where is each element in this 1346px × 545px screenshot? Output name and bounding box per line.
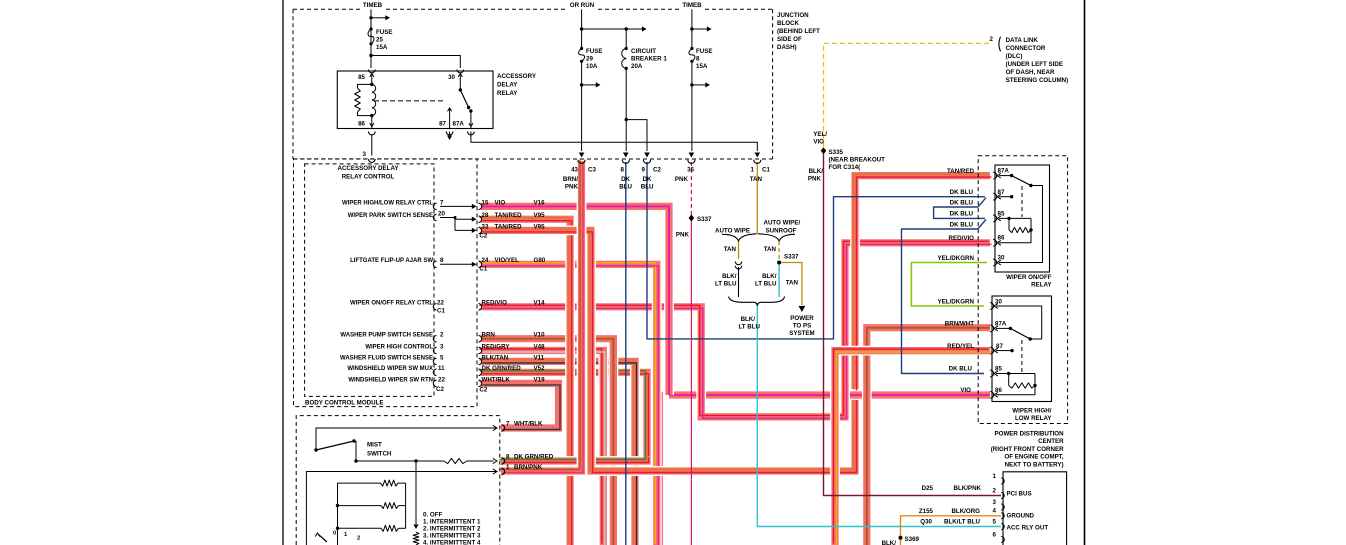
high/low relay 30 pin bbox=[990, 303, 993, 310]
svg-text:TAN/RED: TAN/RED bbox=[947, 168, 975, 175]
autowipe brace left bbox=[722, 234, 757, 241]
svg-text:1. INTERMITTENT 1: 1. INTERMITTENT 1 bbox=[423, 519, 481, 526]
relay terminal 85 connector bbox=[368, 70, 375, 73]
svg-text:WIPER ON/OFF: WIPER ON/OFF bbox=[1006, 274, 1052, 281]
wire V95 TAN/RED from BCM pin 28 down off page bbox=[481, 219, 570, 545]
svg-text:V95: V95 bbox=[534, 212, 546, 219]
svg-text:15A: 15A bbox=[376, 44, 388, 51]
svg-text:V95: V95 bbox=[534, 223, 546, 230]
delay resistor ladder rail right bbox=[405, 483, 407, 528]
wire DK BLU loop relay 87 to relay 85 bbox=[934, 198, 986, 219]
page border left bbox=[282, 0, 284, 545]
wire V95 TAN/RED from BCM pin 33 to park-sense bus bbox=[481, 230, 851, 471]
on/off relay 87A pin bbox=[993, 172, 996, 179]
svg-text:VIO: VIO bbox=[960, 387, 971, 394]
svg-text:LIFTGATE FLIP-UP AJAR SW: LIFTGATE FLIP-UP AJAR SW bbox=[350, 258, 433, 264]
svg-text:V14: V14 bbox=[534, 300, 546, 307]
svg-text:BRN: BRN bbox=[482, 332, 496, 339]
svg-text:LOW RELAY: LOW RELAY bbox=[1015, 415, 1052, 422]
wiper switch pin 7 connector bbox=[502, 425, 505, 431]
relay terminal 30 connector bbox=[457, 70, 464, 73]
svg-text:SYSTEM: SYSTEM bbox=[789, 330, 814, 337]
wire V11 BLK/TAN from BCM pin 5 down off page bbox=[481, 361, 635, 545]
svg-text:WHT/BLK: WHT/BLK bbox=[514, 420, 543, 427]
svg-text:SIDE OF: SIDE OF bbox=[777, 36, 802, 43]
svg-text:TAN: TAN bbox=[750, 176, 763, 183]
svg-text:DK: DK bbox=[621, 176, 630, 183]
svg-text:TAN: TAN bbox=[764, 246, 777, 253]
svg-text:DK: DK bbox=[643, 176, 652, 183]
svg-text:SUNROOF: SUNROOF bbox=[766, 228, 797, 235]
svg-text:JUNCTION: JUNCTION bbox=[777, 12, 809, 19]
svg-text:OF ENGINE COMPT,: OF ENGINE COMPT, bbox=[1004, 454, 1063, 461]
autowipe inline connector bbox=[735, 262, 741, 265]
svg-text:4. INTERMITTENT 4: 4. INTERMITTENT 4 bbox=[423, 540, 481, 545]
junction block dashed box bbox=[293, 9, 773, 159]
svg-text:BLK/ORG: BLK/ORG bbox=[951, 508, 980, 515]
wire VIO segment to wiper high/low relay 86 bbox=[669, 390, 990, 400]
svg-text:86: 86 bbox=[358, 121, 365, 128]
svg-text:PCI BUS: PCI BUS bbox=[1007, 491, 1032, 498]
high/low relay coil bbox=[996, 373, 1009, 375]
wire V19 WHT/BLK from BCM pin 22 to wiper switch pin 7 bbox=[481, 383, 559, 428]
DLC bracket bbox=[999, 37, 1001, 52]
svg-text:VIO: VIO bbox=[495, 199, 506, 206]
svg-text:87: 87 bbox=[998, 189, 1005, 196]
svg-text:0: 0 bbox=[333, 531, 336, 537]
svg-text:3: 3 bbox=[363, 151, 367, 158]
splice S337 diamond bbox=[689, 215, 695, 222]
svg-text:WASHER PUMP SWITCH SENSE: WASHER PUMP SWITCH SENSE bbox=[340, 333, 433, 339]
svg-text:ACCESSORY: ACCESSORY bbox=[497, 73, 537, 80]
high/low relay 87A pin bbox=[990, 325, 993, 332]
svg-text:AUTO WIPE: AUTO WIPE bbox=[715, 228, 750, 235]
svg-text:BLK/PNK: BLK/PNK bbox=[954, 485, 982, 492]
svg-text:15: 15 bbox=[482, 199, 489, 206]
wire BLK/LT BLU from brace to PDC pin 5 ACC RLY OUT bbox=[757, 303, 1001, 527]
on/off relay internals bbox=[999, 175, 1012, 177]
svg-text:GROUND: GROUND bbox=[1007, 513, 1035, 520]
BCM pin 11 connector bbox=[433, 369, 436, 375]
BCM pin 8 connector and arrow bbox=[433, 261, 436, 267]
svg-text:TAN/RED: TAN/RED bbox=[495, 223, 523, 230]
svg-text:30: 30 bbox=[998, 255, 1005, 262]
svg-text:6: 6 bbox=[993, 531, 997, 538]
svg-text:DK BLU: DK BLU bbox=[950, 211, 974, 218]
wire YEL/DKGRN from on/off relay 30 to high/low relay 30 bbox=[911, 263, 987, 307]
delay resistor ladder rail left bbox=[337, 483, 339, 545]
svg-text:DK BLU: DK BLU bbox=[950, 200, 974, 207]
wire V16 VIO from BCM pin 15 down to relay feed row bbox=[481, 206, 669, 395]
svg-text:4: 4 bbox=[993, 508, 997, 515]
intermittent wiper rheostat bbox=[415, 461, 417, 524]
relay dashed actuator link bbox=[374, 100, 444, 102]
svg-text:V11: V11 bbox=[534, 354, 545, 361]
svg-text:85: 85 bbox=[358, 74, 365, 81]
circuit breaker 1 bbox=[625, 29, 627, 49]
svg-text:RELAY: RELAY bbox=[497, 90, 518, 97]
svg-text:DK BLU: DK BLU bbox=[949, 366, 973, 373]
BCM pin 22 C1 connector bbox=[433, 304, 436, 310]
body control module dashed box bbox=[294, 159, 478, 407]
splice S369 dot bbox=[899, 536, 903, 540]
wire RED/YEL from wiper high/low relay 87 down off page bbox=[835, 351, 990, 545]
svg-text:85: 85 bbox=[998, 211, 1005, 218]
wiper high/low relay box bbox=[992, 296, 1052, 402]
svg-text:43: 43 bbox=[571, 167, 578, 174]
svg-text:RED/VIO: RED/VIO bbox=[482, 300, 508, 307]
high/low relay 85 pin bbox=[990, 370, 993, 377]
relay terminal 86 connector bbox=[368, 132, 375, 135]
wire OR RUN feed to fuse 29 bbox=[581, 9, 583, 48]
BCM harness connectors at right edge bbox=[479, 203, 482, 209]
svg-text:VIO: VIO bbox=[813, 139, 824, 146]
page border right bbox=[1084, 0, 1086, 545]
on/off relay 85 pin bbox=[993, 215, 996, 222]
svg-text:87A: 87A bbox=[453, 121, 465, 128]
svg-text:30: 30 bbox=[448, 74, 455, 81]
wire BRN/PNK from junction block pin 43 to wiper switch pin 1 bbox=[501, 161, 582, 471]
wire G80 VIO/YEL from BCM pin 24 down off page bbox=[481, 264, 657, 545]
fuse 29 bbox=[580, 47, 583, 50]
svg-text:D25: D25 bbox=[922, 485, 934, 492]
svg-text:DELAY: DELAY bbox=[497, 82, 518, 89]
high/low relay 86 pin bbox=[990, 391, 993, 398]
svg-text:WIPER PARK SWITCH SENSE: WIPER PARK SWITCH SENSE bbox=[348, 213, 433, 219]
svg-text:PNK: PNK bbox=[675, 176, 689, 183]
relay terminal 87 connector bbox=[446, 132, 453, 135]
svg-text:5: 5 bbox=[993, 518, 997, 525]
wiper switch resistor to pin 8 bbox=[356, 460, 444, 462]
svg-text:YEL/DKGRN: YEL/DKGRN bbox=[938, 255, 975, 262]
wire BLK/LT BLU from splice S337 to brace bbox=[778, 262, 780, 297]
svg-text:DATA LINK: DATA LINK bbox=[1006, 37, 1039, 44]
mist switch wiring bbox=[316, 428, 497, 450]
BCM pin 3 connector bbox=[433, 347, 436, 353]
svg-text:24: 24 bbox=[482, 257, 489, 264]
junction block pin 9 connector bbox=[643, 160, 650, 164]
svg-text:PNK: PNK bbox=[565, 184, 579, 191]
svg-text:BRN/WHT: BRN/WHT bbox=[945, 321, 974, 328]
svg-text:DK BLU: DK BLU bbox=[950, 189, 974, 196]
wire TAN dashed right branch to splice S337 bbox=[778, 241, 780, 262]
on/off relay coil bbox=[999, 217, 1009, 219]
svg-text:20A: 20A bbox=[631, 63, 643, 70]
svg-text:BRN/PNK: BRN/PNK bbox=[514, 464, 543, 471]
wire relay 86 to BCM pin 3 bbox=[371, 135, 373, 156]
svg-text:C2: C2 bbox=[436, 386, 444, 393]
rotary switch arm bbox=[319, 535, 328, 543]
wiper switch dashed box bbox=[296, 416, 500, 545]
wire TAN from junction block pin 1 C1 down to autowipe braces bbox=[756, 162, 758, 234]
wire V95 TAN/RED riser from park-sense bus bbox=[851, 391, 855, 471]
BCM pin 22 C2 connector bbox=[433, 380, 436, 386]
svg-text:BLK/: BLK/ bbox=[809, 168, 824, 175]
BCM pin 20 connector and arrows bbox=[433, 214, 436, 220]
relay switch arm bbox=[459, 88, 462, 91]
svg-text:87: 87 bbox=[439, 121, 446, 128]
svg-text:(UNDER LEFT SIDE: (UNDER LEFT SIDE bbox=[1006, 61, 1063, 68]
accessory delay relay box bbox=[337, 71, 493, 129]
wire V52 DK GRN/RED switch row to wiper switch pin 8 bbox=[501, 456, 647, 461]
svg-text:Q30: Q30 bbox=[920, 518, 932, 525]
svg-text:86: 86 bbox=[998, 235, 1005, 242]
svg-text:36: 36 bbox=[687, 167, 694, 174]
svg-text:8: 8 bbox=[440, 257, 444, 264]
svg-text:22: 22 bbox=[438, 376, 445, 383]
svg-text:ACCESSORY DELAY: ACCESSORY DELAY bbox=[338, 165, 400, 172]
svg-text:YEL/DKGRN: YEL/DKGRN bbox=[938, 298, 975, 305]
on/off relay 87 pin bbox=[993, 193, 996, 200]
svg-text:30: 30 bbox=[995, 298, 1002, 305]
svg-text:5: 5 bbox=[440, 354, 444, 361]
svg-text:POWER DISTRIBUTION: POWER DISTRIBUTION bbox=[995, 431, 1065, 438]
svg-text:SWITCH: SWITCH bbox=[367, 451, 392, 458]
wire PNK below splice S337 down off page bbox=[690, 215, 692, 545]
svg-text:CONNECTOR: CONNECTOR bbox=[1006, 45, 1046, 52]
wire breaker to junction pin 9 bbox=[626, 120, 647, 151]
svg-text:WASHER FLUID SWITCH SENSE: WASHER FLUID SWITCH SENSE bbox=[340, 355, 433, 361]
high/low relay internals bbox=[996, 306, 1042, 339]
svg-text:OF DASH, NEAR: OF DASH, NEAR bbox=[1006, 69, 1055, 76]
svg-text:CIRCUIT: CIRCUIT bbox=[631, 48, 656, 55]
svg-text:V52: V52 bbox=[534, 365, 546, 372]
svg-text:2. INTERMITTENT 2: 2. INTERMITTENT 2 bbox=[423, 526, 481, 533]
mist switch arm bbox=[316, 441, 354, 450]
svg-text:BLK/TAN: BLK/TAN bbox=[482, 354, 509, 361]
svg-text:85: 85 bbox=[995, 366, 1002, 373]
svg-text:15A: 15A bbox=[696, 63, 708, 70]
fuse 8 bbox=[690, 47, 693, 50]
svg-text:RELAY CONTROL: RELAY CONTROL bbox=[342, 174, 395, 181]
svg-text:NEXT TO BATTERY): NEXT TO BATTERY) bbox=[1005, 461, 1064, 468]
svg-text:1: 1 bbox=[993, 473, 997, 480]
svg-text:BLK/: BLK/ bbox=[762, 273, 777, 280]
relay coil and resistor bbox=[370, 83, 373, 86]
svg-text:BODY CONTROL MODULE: BODY CONTROL MODULE bbox=[305, 400, 384, 407]
wire BLK/LT BLU stub below autowipe connector bbox=[738, 267, 740, 297]
svg-text:VIO/YEL: VIO/YEL bbox=[495, 257, 520, 264]
mist switch contact to resistor row bbox=[355, 441, 357, 461]
wiper on/off relay box bbox=[995, 165, 1050, 272]
relay terminal 87A connector bbox=[468, 132, 475, 135]
power tops system arrow bbox=[799, 306, 806, 312]
svg-text:BRN/: BRN/ bbox=[563, 176, 578, 183]
svg-text:3: 3 bbox=[440, 343, 444, 350]
svg-text:(RIGHT FRONT CORNER: (RIGHT FRONT CORNER bbox=[991, 446, 1064, 453]
splice S335 bbox=[821, 147, 827, 154]
splice S337 dot on sunroof branch bbox=[777, 261, 781, 265]
junction block pin 36 connector bbox=[688, 160, 695, 164]
wire BLK stub below splice S369 bbox=[900, 538, 902, 545]
svg-text:8: 8 bbox=[696, 56, 700, 63]
wire relay 87 to junction pin 1 C1 bbox=[471, 132, 757, 152]
svg-text:TAN/RED: TAN/RED bbox=[495, 212, 523, 219]
wire BLK/ORG from PDC pin 4 GROUND to splice S369 bbox=[901, 516, 1002, 538]
svg-text:1: 1 bbox=[506, 464, 510, 471]
svg-text:BLU: BLU bbox=[641, 184, 654, 191]
svg-text:C1: C1 bbox=[437, 308, 445, 315]
wire V52 DK GRN/RED from BCM pin 11 down to switch row bbox=[481, 372, 647, 461]
wire BRN/WHT from bottom edge to wiper high/low relay 87A bbox=[867, 328, 990, 545]
svg-text:LT BLU: LT BLU bbox=[715, 281, 737, 288]
svg-text:(DLC): (DLC) bbox=[1006, 53, 1023, 60]
svg-text:RELAY: RELAY bbox=[1031, 282, 1052, 289]
svg-text:(NEAR BREAKOUT: (NEAR BREAKOUT bbox=[829, 157, 886, 164]
svg-text:S337: S337 bbox=[784, 254, 799, 261]
svg-text:YEL/: YEL/ bbox=[813, 131, 827, 138]
svg-text:BLOCK: BLOCK bbox=[777, 20, 800, 27]
svg-text:7: 7 bbox=[440, 199, 444, 206]
junction block pin 1 connector bbox=[754, 160, 761, 164]
fuse 25 bbox=[369, 27, 372, 30]
svg-text:G80: G80 bbox=[534, 257, 546, 264]
svg-text:10A: 10A bbox=[586, 63, 598, 70]
svg-text:11: 11 bbox=[438, 365, 445, 372]
high/low relay 87 pin bbox=[990, 347, 993, 354]
svg-text:25: 25 bbox=[376, 37, 383, 44]
svg-text:DASH): DASH) bbox=[777, 44, 797, 51]
svg-text:C1: C1 bbox=[762, 167, 770, 174]
svg-text:Z155: Z155 bbox=[919, 508, 934, 515]
wire DK BLU from junction block pin 9 to wiper on/off relay 87 bbox=[647, 162, 985, 339]
svg-text:WIPER ON/OFF RELAY CTRL: WIPER ON/OFF RELAY CTRL bbox=[350, 301, 433, 307]
svg-text:PNK: PNK bbox=[808, 176, 822, 183]
wire fuse25 to relay 30 terminal bbox=[371, 56, 460, 69]
svg-text:C2: C2 bbox=[653, 167, 661, 174]
on/off relay 86 pin bbox=[993, 239, 996, 246]
svg-text:28: 28 bbox=[482, 212, 489, 219]
svg-text:STEERING COLUMN): STEERING COLUMN) bbox=[1006, 77, 1069, 84]
svg-text:BLK/: BLK/ bbox=[741, 316, 756, 323]
svg-text:1: 1 bbox=[751, 167, 755, 174]
svg-text:WIPER HIGH/LOW RELAY CTRL: WIPER HIGH/LOW RELAY CTRL bbox=[342, 200, 433, 206]
wiper switch pin 1 connector bbox=[502, 468, 505, 474]
svg-text:S337: S337 bbox=[697, 216, 712, 223]
junction block pin 8 connector bbox=[622, 160, 629, 164]
wiper switch pin 1 feed wire bbox=[306, 472, 497, 545]
svg-text:S369: S369 bbox=[905, 536, 920, 543]
autowipe merge brace bbox=[729, 297, 785, 306]
svg-text:TIMEB: TIMEB bbox=[363, 2, 383, 9]
wire TAN left branch to autowipe connector bbox=[738, 241, 740, 259]
svg-text:TIMEB: TIMEB bbox=[682, 2, 702, 9]
svg-text:29: 29 bbox=[586, 56, 593, 63]
wire TIMEB feed to fuse 25 bbox=[370, 9, 372, 68]
svg-text:BREAKER 1: BREAKER 1 bbox=[631, 56, 667, 63]
svg-text:RED/YEL: RED/YEL bbox=[947, 343, 974, 350]
wire DK BLU from on/off relay 85 to high/low relay 85 bbox=[902, 219, 987, 373]
delay resistor R2 bbox=[338, 505, 382, 507]
svg-text:33: 33 bbox=[482, 223, 489, 230]
wiper relays dashed box bbox=[978, 156, 1067, 424]
junction block pin 43 connector bbox=[578, 160, 585, 164]
svg-text:DK BLU: DK BLU bbox=[950, 222, 974, 229]
svg-text:FOR C314(: FOR C314( bbox=[829, 164, 862, 171]
svg-text:TAN: TAN bbox=[724, 246, 737, 253]
svg-text:0. OFF: 0. OFF bbox=[423, 512, 442, 519]
PDC pin connectors 1-6 bbox=[1001, 478, 1004, 484]
accessory delay relay control dashed box bbox=[305, 164, 434, 397]
svg-text:LT BLU: LT BLU bbox=[755, 281, 777, 288]
svg-text:RED/VIO: RED/VIO bbox=[949, 235, 975, 242]
svg-text:CENTER: CENTER bbox=[1038, 438, 1064, 445]
svg-text:20: 20 bbox=[438, 211, 445, 218]
BCM pin 2 connector bbox=[433, 336, 436, 342]
svg-text:86: 86 bbox=[995, 387, 1002, 394]
svg-text:LT BLU: LT BLU bbox=[738, 324, 760, 331]
svg-text:TAN: TAN bbox=[786, 280, 799, 287]
svg-text:2: 2 bbox=[357, 536, 360, 542]
svg-text:PNK: PNK bbox=[676, 232, 690, 239]
BCM pin 7 connector and arrow bbox=[433, 203, 436, 209]
BCM pin 5 connector bbox=[433, 358, 436, 364]
svg-text:FUSE: FUSE bbox=[376, 29, 393, 36]
svg-text:V48: V48 bbox=[534, 343, 546, 350]
svg-text:FUSE: FUSE bbox=[696, 48, 713, 55]
svg-text:87A: 87A bbox=[995, 321, 1007, 328]
svg-text:ACC RLY OUT: ACC RLY OUT bbox=[1007, 524, 1049, 531]
svg-text:8: 8 bbox=[621, 167, 625, 174]
svg-text:C1: C1 bbox=[479, 266, 487, 273]
svg-text:DK GRN/RED: DK GRN/RED bbox=[482, 365, 522, 372]
wire DK BLU from junction block pin 8 down off page bbox=[625, 162, 627, 545]
wire TIMEB feed to fuse 8 bbox=[691, 9, 693, 48]
svg-text:3. INTERMITTENT 3: 3. INTERMITTENT 3 bbox=[423, 533, 481, 540]
svg-text:BLU: BLU bbox=[619, 184, 632, 191]
svg-text:8: 8 bbox=[506, 453, 510, 460]
svg-text:C3: C3 bbox=[588, 167, 596, 174]
svg-text:WIPER HIGH/: WIPER HIGH/ bbox=[1012, 408, 1051, 415]
svg-text:V16: V16 bbox=[534, 199, 546, 206]
wire YEL/VIO dashed from DLC to splice S335 bbox=[824, 43, 990, 151]
delay resistor R1 bbox=[338, 482, 381, 484]
power distribution center box bbox=[1003, 472, 1067, 545]
svg-text:3: 3 bbox=[993, 499, 997, 506]
svg-text:7: 7 bbox=[506, 420, 510, 427]
svg-text:V19: V19 bbox=[534, 376, 546, 383]
svg-text:2: 2 bbox=[990, 36, 994, 43]
svg-text:TO PS: TO PS bbox=[793, 323, 811, 330]
svg-text:BLK/: BLK/ bbox=[722, 273, 737, 280]
svg-text:C2: C2 bbox=[479, 387, 487, 394]
wire V48 RED/GRY from BCM pin 3 down off page bbox=[481, 351, 603, 545]
wire BLK/PNK from splice S335 to PDC pin 2 PCI BUS bbox=[824, 151, 1002, 496]
wire PNK from junction block pin 36 to splice S337 bbox=[690, 162, 692, 215]
relay terminal 87 stub bbox=[448, 108, 452, 111]
wire V95 TAN/RED segment into wiper on/off relay 87A bbox=[855, 176, 990, 389]
svg-text:S335: S335 bbox=[829, 149, 844, 156]
svg-text:C2: C2 bbox=[479, 232, 487, 239]
svg-text:87A: 87A bbox=[998, 168, 1010, 175]
autowipe brace right bbox=[758, 234, 795, 241]
svg-text:POWER: POWER bbox=[790, 315, 814, 322]
svg-text:V10: V10 bbox=[534, 332, 546, 339]
svg-text:OR RUN: OR RUN bbox=[570, 2, 595, 9]
svg-text:WINDSHIELD WIPER SW MUX: WINDSHIELD WIPER SW MUX bbox=[347, 366, 433, 372]
wire VIO branch to wiper motor (off page bottom) bbox=[655, 392, 665, 545]
on/off relay 30 pin bbox=[993, 259, 996, 266]
svg-text:RED/GRY: RED/GRY bbox=[482, 343, 511, 350]
svg-text:22: 22 bbox=[437, 300, 444, 307]
svg-text:2: 2 bbox=[440, 332, 444, 339]
svg-text:WINDSHIELD WIPER SW RTN: WINDSHIELD WIPER SW RTN bbox=[348, 377, 433, 383]
svg-text:AUTO WIPE/: AUTO WIPE/ bbox=[764, 220, 801, 227]
svg-text:FUSE: FUSE bbox=[586, 48, 603, 55]
svg-text:2: 2 bbox=[993, 487, 997, 494]
svg-text:(BEHIND LEFT: (BEHIND LEFT bbox=[777, 28, 820, 35]
delay resistor R3 bbox=[338, 527, 382, 529]
